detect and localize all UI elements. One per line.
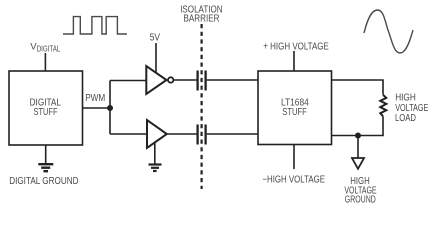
svg-text:5V: 5V <box>150 33 161 44</box>
wire inverter output to capacitor C1 <box>173 79 196 81</box>
svg-text:DIGITAL: DIGITAL <box>37 45 61 54</box>
buffer U3 (lower) <box>147 120 167 148</box>
wire to high voltage ground arrow <box>357 136 359 158</box>
wire PWM output <box>83 107 111 109</box>
svg-text:PWM: PWM <box>85 93 105 104</box>
svg-text:STUFF: STUFF <box>282 107 306 118</box>
wire buffer output to capacitor C2 <box>167 133 197 135</box>
inverter U2 output bubble <box>168 77 173 82</box>
svg-text:−HIGH VOLTAGE: −HIGH VOLTAGE <box>262 174 325 185</box>
wire PWM node to buffer input <box>110 133 147 135</box>
capacitor C2 isolation (lower) <box>198 125 206 145</box>
label HIGH VOLTAGE GROUND <box>344 176 377 206</box>
junction node PWM <box>107 105 113 111</box>
wire capacitor C1 to LT1684 box <box>207 79 258 81</box>
isolation barrier dashed line <box>201 24 203 189</box>
svg-text:DIGITAL GROUND: DIGITAL GROUND <box>9 176 78 187</box>
wire capacitor C2 to LT1684 box <box>207 133 258 135</box>
wire load bottom to return <box>332 116 384 135</box>
svg-text:GROUND: GROUND <box>345 195 376 206</box>
svg-text:LOAD: LOAD <box>395 113 416 124</box>
PWM square-wave waveform icon <box>63 17 127 34</box>
wire PWM node to inverter input <box>110 80 146 82</box>
node VDIGITAL label <box>30 41 61 53</box>
block U1 DIGITAL STUFF <box>9 71 83 145</box>
label ISOLATION BARRIER <box>180 5 222 25</box>
wire LT1684 output to load top <box>332 80 384 95</box>
svg-text:STUFF: STUFF <box>34 107 58 118</box>
svg-text:HIGH: HIGH <box>395 93 416 104</box>
svg-text:+ HIGH VOLTAGE: + HIGH VOLTAGE <box>263 41 329 52</box>
ground digital ground symbol <box>38 164 53 171</box>
svg-text:BARRIER: BARRIER <box>184 14 220 25</box>
sine wave output waveform icon <box>364 10 413 53</box>
label HIGH VOLTAGE LOAD <box>395 93 429 125</box>
resistor R1 high voltage load <box>380 95 386 116</box>
block U4 LT1684 STUFF <box>258 71 332 145</box>
wire buffer ground stem <box>154 143 156 165</box>
wire 5V supply to inverter <box>155 43 157 73</box>
wire PWM node vertical <box>109 81 111 135</box>
wire digital stuff to digital ground <box>45 145 47 164</box>
inverter U2 (buffer with bubble) <box>146 66 166 94</box>
ground buffer ground symbol <box>149 165 162 172</box>
ground high voltage ground arrow <box>352 158 364 169</box>
capacitor C1 isolation (upper) <box>198 71 206 91</box>
wire VDIGITAL to digital stuff box <box>44 53 46 71</box>
wire -HIGH VOLTAGE supply <box>293 145 295 170</box>
wire +HIGH VOLTAGE supply <box>293 51 295 71</box>
junction node high voltage ground <box>355 133 361 139</box>
